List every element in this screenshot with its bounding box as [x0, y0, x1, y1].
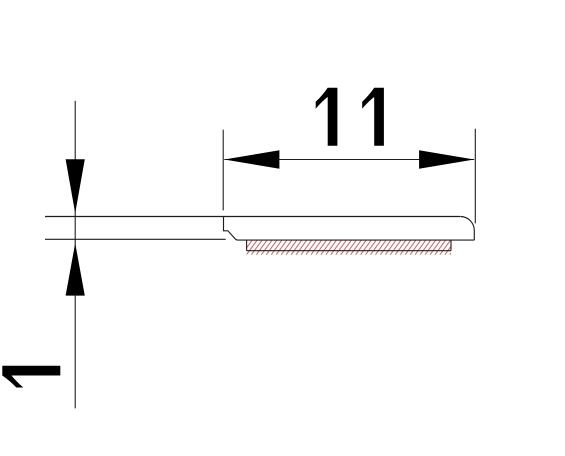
profile bottom left line [45, 238, 226, 240]
tape outline left edge [246, 240, 248, 250]
tape outline bottom edge [247, 250, 451, 252]
extension line left [222, 130, 224, 211]
extension line right [474, 129, 476, 224]
dimension text 11 first digit [316, 88, 338, 146]
dimension text 11 second digit [362, 88, 384, 146]
dim arrow right [419, 150, 474, 169]
profile top line [45, 216, 460, 218]
dim arrow up [66, 243, 85, 295]
vertical dimension line [74, 101, 76, 409]
profile step edge [224, 217, 238, 241]
dim arrow left [224, 150, 279, 169]
profile bottom right line [238, 239, 475, 241]
dimension text 1 (rotated) [2, 366, 60, 388]
dim arrow down [66, 159, 85, 213]
adhesive tape red hatch [237, 240, 461, 254]
tape outline right edge [450, 240, 452, 250]
profile right fillet and right edge [460, 217, 474, 241]
horizontal dimension line [224, 159, 474, 161]
